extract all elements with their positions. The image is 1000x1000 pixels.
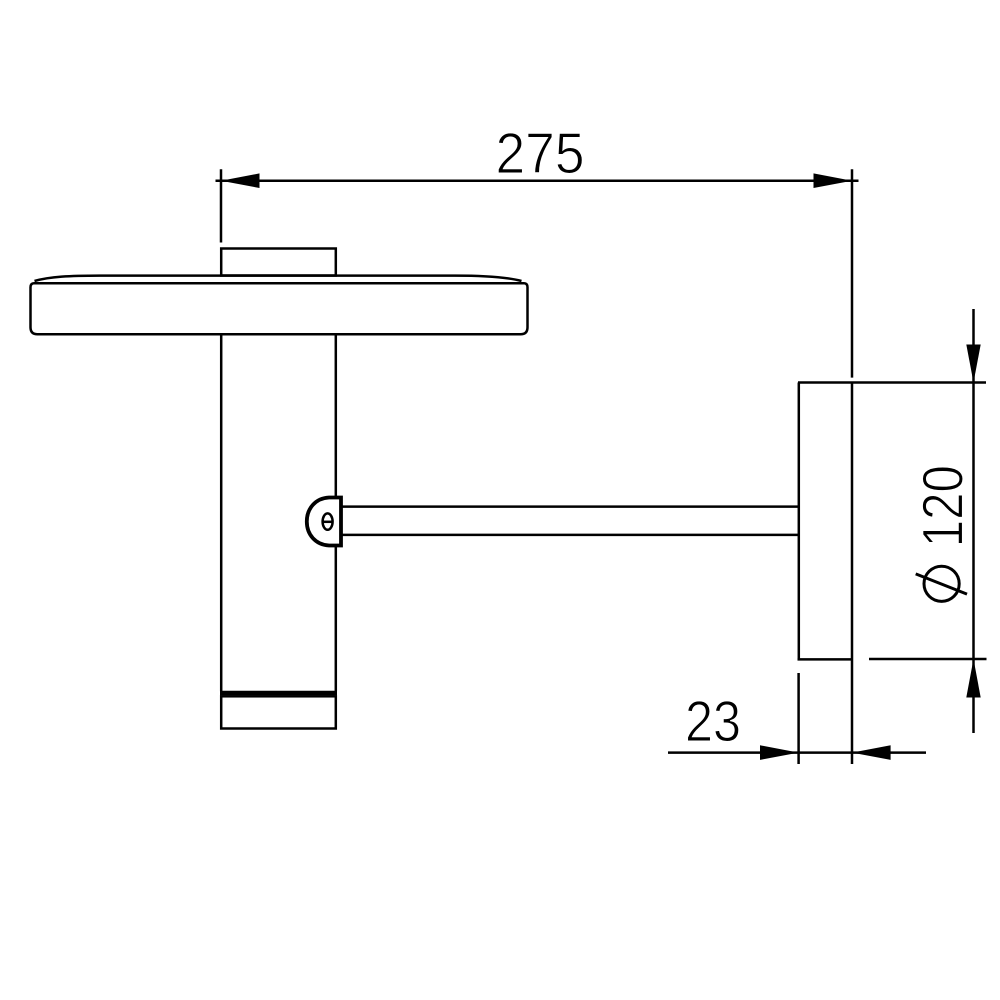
- pivot knob at arm end: [307, 498, 341, 546]
- dimension 23 label: [685, 690, 741, 754]
- svg-text:120: 120: [912, 465, 976, 547]
- wall plate top line / diameter extension line: [798, 381, 986, 384]
- dimension 275 left arrowhead: [221, 173, 260, 188]
- lamp head disc body: [31, 283, 528, 334]
- lamp tube bottom thick separator line: [220, 691, 337, 696]
- dimension 275 right extension line / wall line top: [851, 169, 854, 377]
- wall plate left edge: [798, 383, 801, 660]
- dimension 275 right arrowhead: [814, 173, 853, 188]
- wall plate right edge / wall line: [851, 383, 854, 765]
- diameter 120 top arrowhead: [966, 345, 980, 383]
- dimension 275 label: [496, 122, 585, 186]
- lamp tube upper (behind disc): [221, 334, 336, 691]
- dimension 23 right arrowhead: [852, 745, 891, 760]
- pivot screw slot: [323, 513, 333, 529]
- dimension 23 left arrowhead: [760, 745, 799, 760]
- lamp head top cap: [221, 249, 336, 276]
- diameter 120 label digits: [912, 465, 976, 547]
- dimension 275 left extension line: [220, 169, 223, 242]
- diameter 120 label diameter symbol: [916, 566, 967, 601]
- dimension 275 dim line: [216, 179, 859, 182]
- dimension 23 left extension line: [797, 673, 800, 764]
- wall plate bottom edge: [798, 658, 853, 661]
- lamp head dome top line: [35, 276, 522, 281]
- dimension 23 dim line: [668, 751, 926, 754]
- svg-text:275: 275: [496, 122, 585, 186]
- lamp tube bottom cap: [221, 696, 336, 728]
- horizontal arm: [339, 507, 799, 535]
- diameter 120 dim line: [972, 309, 975, 733]
- diameter 120 bottom arrowhead: [966, 659, 980, 698]
- diameter 120 bottom extension line: [869, 658, 987, 661]
- svg-text:23: 23: [685, 690, 741, 754]
